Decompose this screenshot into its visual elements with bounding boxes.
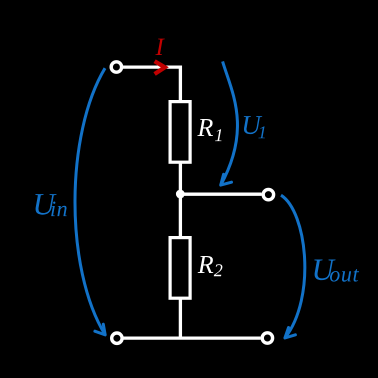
terminal: middle-right open circle — [263, 189, 273, 199]
label U1 — [244, 116, 262, 134]
label Uin — [35, 194, 56, 215]
resistor R2 — [170, 238, 190, 299]
wire: bottom rail between terminals — [124, 336, 261, 339]
terminal: bottom-right open circle — [262, 333, 272, 343]
label R2 — [198, 256, 214, 273]
wire: node to middle-right terminal — [180, 193, 261, 196]
arrow Uout (right arc from middle-right to bottom-right terminal) — [281, 195, 305, 338]
wire: top-left terminal to corner to R1 top — [123, 67, 181, 101]
current arrow I (red chevron on top wire) — [155, 61, 165, 74]
resistor R1 — [170, 102, 190, 163]
arrow U1 (arc right of R1, from top wire to node wire) — [221, 61, 238, 185]
node: junction dot — [176, 190, 185, 199]
label Uout — [314, 260, 335, 281]
terminal: top-left open circle — [111, 62, 121, 72]
terminal: bottom-left open circle — [112, 333, 122, 343]
wire: R1 bottom to node to R2 top — [179, 162, 182, 237]
arrow Uin (left arc from top-left to bottom-left terminal) — [75, 68, 105, 335]
label I — [155, 39, 164, 55]
wire: R2 bottom to bottom rail — [179, 298, 182, 338]
label R1 — [197, 119, 213, 136]
